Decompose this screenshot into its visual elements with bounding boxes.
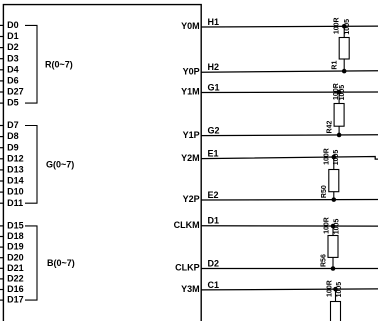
svg-text:100R: 100R [327,280,334,297]
svg-text:1005: 1005 [334,219,341,235]
svg-text:D17: D17 [7,295,24,305]
svg-text:D1: D1 [208,216,220,226]
svg-text:D10: D10 [7,187,24,197]
svg-text:D15: D15 [7,221,24,231]
svg-text:100R: 100R [324,217,331,234]
svg-text:D14: D14 [7,176,24,186]
svg-text:100R: 100R [324,148,331,165]
svg-text:Y0P: Y0P [183,66,200,76]
svg-text:Y2M: Y2M [181,153,200,163]
svg-text:R1: R1 [332,61,339,70]
svg-text:D7: D7 [7,120,19,130]
svg-text:D9: D9 [7,142,19,152]
svg-text:D11: D11 [7,198,23,208]
svg-text:D2: D2 [208,259,220,269]
svg-text:Y3M: Y3M [181,284,200,294]
svg-text:R50: R50 [321,185,328,198]
svg-text:D0: D0 [7,20,19,30]
svg-text:G(0~7): G(0~7) [46,160,74,170]
svg-text:D21: D21 [7,263,24,273]
svg-text:100R: 100R [334,17,341,34]
svg-text:1005: 1005 [344,19,351,35]
svg-text:R56: R56 [320,254,327,267]
svg-text:D12: D12 [7,153,24,163]
svg-text:C1: C1 [208,280,220,290]
svg-text:CLKP: CLKP [175,263,200,273]
svg-text:Y1P: Y1P [183,130,200,140]
svg-text:D5: D5 [7,98,19,108]
svg-text:D22: D22 [7,274,24,284]
svg-text:G1: G1 [208,83,220,93]
svg-text:G2: G2 [208,126,220,136]
svg-text:D6: D6 [7,76,19,86]
svg-text:Y2P: Y2P [183,194,200,204]
svg-text:D27: D27 [7,87,24,97]
svg-text:1005: 1005 [333,150,340,166]
svg-text:D1: D1 [7,31,19,41]
svg-text:D2: D2 [7,42,19,52]
svg-text:D16: D16 [7,284,24,294]
svg-text:D19: D19 [7,242,24,252]
svg-text:1005: 1005 [336,282,343,298]
svg-text:1005: 1005 [339,85,346,101]
svg-text:R(0~7): R(0~7) [45,60,73,70]
svg-text:D13: D13 [7,165,24,175]
svg-text:CLKM: CLKM [174,220,200,230]
svg-text:E1: E1 [208,149,219,159]
svg-text:D20: D20 [7,252,24,262]
svg-text:Y0M: Y0M [181,21,200,31]
svg-text:H2: H2 [208,62,220,72]
svg-text:D18: D18 [7,231,24,241]
svg-text:E2: E2 [208,190,219,200]
svg-text:D4: D4 [7,64,19,74]
svg-text:D3: D3 [7,53,19,63]
svg-text:Y1M: Y1M [181,87,200,97]
svg-text:B(0~7): B(0~7) [47,258,75,268]
svg-text:D8: D8 [7,131,19,141]
svg-text:H1: H1 [208,17,220,27]
svg-text:R42: R42 [326,121,333,134]
